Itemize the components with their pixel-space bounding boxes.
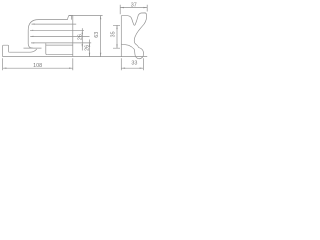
svg-text:37: 37 [131, 2, 137, 8]
dim 35: extension ticks [113, 25, 120, 48]
left view: lower ledge line [47, 54, 73, 56]
svg-text:33: 33 [131, 61, 137, 67]
left view: object line L3 [30, 35, 89, 37]
left view: left hook tip [3, 45, 10, 56]
svg-text:108: 108 [33, 63, 42, 69]
dim 35: dimension line [116, 25, 118, 48]
left view: outer top edge with big left corner [28, 20, 67, 48]
arrow L3 left [30, 36, 33, 37]
dim 26 upper: vertical dimension line [81, 28, 83, 50]
dim 63: vertical dimension line [100, 16, 102, 57]
dim 33: dimension line [121, 67, 143, 69]
dim 108: extension lines [3, 58, 73, 70]
left view: bottom edge [3, 56, 73, 58]
dim 33 arrows [121, 68, 125, 69]
left view: arm bottom line [24, 47, 42, 49]
left view: mid ledge line [46, 44, 73, 46]
dim 37: dimension line [120, 7, 147, 9]
left view: tab inner edge [70, 16, 72, 20]
extension line: top ledge to 63 dim [69, 15, 103, 17]
dim 37 arrows [120, 7, 124, 8]
svg-text:63: 63 [94, 32, 100, 38]
svg-text:35: 35 [110, 31, 116, 37]
dim 35 arrows [116, 25, 117, 29]
arrow L4 left [31, 42, 34, 43]
dim 37: extension lines [120, 5, 147, 14]
extension line: bottom line across to right view [73, 56, 147, 58]
dim 108: dimension line [3, 67, 73, 69]
left view: right end face [72, 16, 74, 57]
left view: middle step vertical [46, 43, 47, 55]
dim 63 arrows [100, 16, 101, 20]
left view: object line L4 / extension for dim 26 lower [31, 42, 91, 44]
dim 33: extension lines [121, 58, 143, 70]
left view: raised tab at top right [68, 16, 73, 20]
left view: tip inner ledge line [10, 49, 37, 52]
arrow L1 left [32, 24, 35, 25]
right view: profile outline [121, 13, 146, 59]
right view: back face [120, 16, 122, 57]
left view: object line L2 / extension for dim 26 upper [30, 29, 84, 31]
arrow L2 left [30, 30, 33, 31]
svg-text:26: 26 [85, 45, 91, 51]
dim 108 arrows [3, 68, 7, 69]
dim 26 upper arrows [82, 30, 83, 34]
dim 26 lower: vertical dimension line [89, 40, 91, 57]
dim 26 lower arrows [89, 43, 90, 47]
left view: object line L1 [32, 23, 77, 25]
svg-text:26: 26 [78, 34, 84, 40]
